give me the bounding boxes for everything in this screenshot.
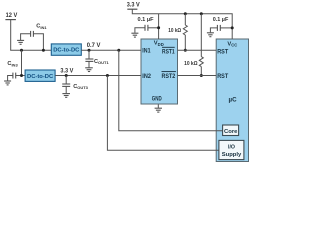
capacitor CIN1 <box>21 24 48 51</box>
svg-text:3.3 V: 3.3 V <box>127 3 140 9</box>
node CIN1 / rail <box>42 49 45 52</box>
node DC-DC2 input <box>20 74 23 77</box>
node C1/VDD <box>157 26 160 29</box>
svg-text:0.1 µF: 0.1 µF <box>138 17 154 23</box>
svg-text:3.3 V: 3.3 V <box>60 68 73 74</box>
wire 3.3V to uC I/O supply <box>107 76 218 151</box>
wire 0.7V to uC Core <box>119 50 223 131</box>
supervisor U1 <box>141 39 178 104</box>
svg-text:Core: Core <box>224 129 238 135</box>
wire row A left (12V to DC-DC1 input) <box>10 49 51 51</box>
svg-text:VCC: VCC <box>227 41 237 47</box>
svg-text:0.1 µF: 0.1 µF <box>213 17 229 23</box>
svg-text:GND: GND <box>152 97 162 103</box>
wire row B right of DC-DC2 <box>55 75 141 77</box>
ground CIN3 <box>4 81 11 85</box>
svg-text:12 V: 12 V <box>6 13 18 19</box>
svg-text:RST: RST <box>217 74 228 80</box>
node 0.7V drop to Core <box>117 49 120 52</box>
resistor R1 10k <box>168 12 187 51</box>
capacitor COUT1 <box>85 50 109 67</box>
ground COUT3 <box>62 94 70 98</box>
ground C1 <box>131 33 138 37</box>
svg-text:0.7 V: 0.7 V <box>87 43 101 49</box>
node COUT1 <box>88 49 91 52</box>
wire RST2 row <box>178 75 217 77</box>
svg-text:DC-to-DC: DC-to-DC <box>27 74 54 80</box>
svg-text:CIN3: CIN3 <box>7 61 18 67</box>
12 V supply terminal <box>5 13 17 19</box>
ground COUT1 <box>85 68 93 72</box>
node branch to DC-DC2 <box>20 49 23 52</box>
DC-to-DC converter 2 <box>25 70 55 81</box>
DC-to-DC converter 1 <box>51 44 81 55</box>
capacitor C1 0.1uF <box>135 17 159 33</box>
svg-text:I/O: I/O <box>228 144 235 150</box>
ground U1 GND <box>155 105 162 113</box>
svg-text:IN1: IN1 <box>142 48 151 54</box>
node C2/VCC <box>231 26 234 29</box>
wire RST1 row <box>178 49 217 51</box>
node COUT3 <box>65 74 68 77</box>
capacitor COUT3 <box>62 76 88 94</box>
svg-text:10 kΩ: 10 kΩ <box>184 61 198 67</box>
microcontroller uC <box>216 39 248 162</box>
wire 3.3V rail top <box>132 9 232 39</box>
wire 12V down <box>10 20 12 51</box>
capacitor CIN3 <box>7 61 25 80</box>
svg-text:VDD: VDD <box>154 41 164 47</box>
capacitor C2 0.1uF <box>210 17 232 32</box>
resistor R2 10k <box>184 12 203 77</box>
svg-text:CIN1: CIN1 <box>36 24 47 30</box>
3.3 V supply terminal (top right) <box>127 3 140 10</box>
svg-text:RST1: RST1 <box>162 49 175 55</box>
svg-text:COUT1: COUT1 <box>94 59 109 65</box>
svg-text:Supply: Supply <box>222 152 242 158</box>
I/O Supply block <box>219 140 244 159</box>
svg-text:DC-to-DC: DC-to-DC <box>53 48 80 54</box>
svg-text:RST: RST <box>217 49 228 55</box>
wire VDD drop <box>158 14 160 39</box>
ground C2 <box>207 33 214 37</box>
node 3.3V drop to I/O supply <box>106 74 109 77</box>
Core block <box>223 125 239 136</box>
svg-text:10 kΩ: 10 kΩ <box>168 28 181 34</box>
wire branch down to row B <box>21 50 23 75</box>
svg-text:RST2: RST2 <box>162 74 176 80</box>
svg-text:µC: µC <box>229 97 238 104</box>
svg-text:IN2: IN2 <box>142 74 151 80</box>
wire row A right of DC-DC1 <box>81 49 141 51</box>
svg-text:COUT3: COUT3 <box>73 84 88 90</box>
ground CIN1 <box>17 40 24 44</box>
